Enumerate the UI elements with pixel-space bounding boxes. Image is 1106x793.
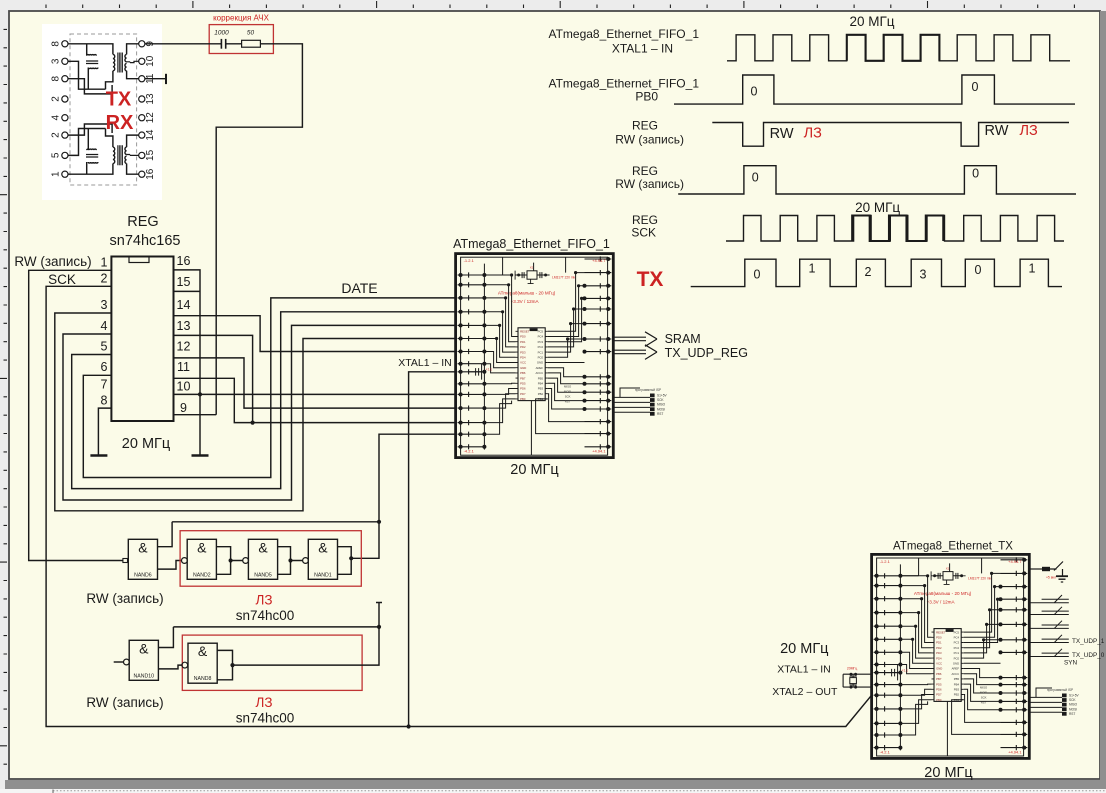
wire transformer pin9 to correction network to REG pin9 bbox=[145, 44, 303, 415]
svg-text:15: 15 bbox=[145, 149, 156, 161]
svg-text:REG: REG bbox=[127, 214, 158, 230]
wire REG pin8 to ground bbox=[98, 408, 111, 454]
svg-text:SYN: SYN bbox=[1064, 660, 1078, 667]
svg-text:ЛЗ: ЛЗ bbox=[255, 695, 272, 710]
svg-text:NAND10: NAND10 bbox=[134, 673, 155, 679]
svg-text:&: & bbox=[139, 640, 149, 656]
svg-text:PD6: PD6 bbox=[520, 387, 526, 391]
NAND gate NAND2 bbox=[182, 539, 243, 579]
svg-text:MISO: MISO bbox=[1069, 703, 1078, 707]
svg-text:PC2: PC2 bbox=[538, 345, 544, 349]
svg-text:PD0: PD0 bbox=[520, 335, 526, 339]
svg-text:ЛЗ: ЛЗ bbox=[255, 593, 272, 608]
svg-text:8: 8 bbox=[101, 394, 108, 408]
svg-text:ATmega8_Ethernet_TX: ATmega8_Ethernet_TX bbox=[893, 541, 1013, 553]
svg-text:PD6: PD6 bbox=[936, 688, 942, 692]
svg-text:14: 14 bbox=[145, 129, 156, 141]
ISP header TX bbox=[1029, 688, 1079, 716]
svg-text:SCK: SCK bbox=[565, 395, 571, 399]
svg-text:PB6: PB6 bbox=[936, 672, 942, 676]
transformer T1 ethernet magnetics bbox=[42, 24, 162, 200]
svg-text:TX_UDP_1: TX_UDP_1 bbox=[1072, 638, 1105, 645]
wire REG pin16 pin15 pin10 ground trunk bbox=[174, 270, 456, 455]
svg-text:PB7: PB7 bbox=[520, 376, 526, 380]
svg-text:0: 0 bbox=[751, 85, 758, 99]
svg-text:программный ISP: программный ISP bbox=[635, 388, 661, 392]
svg-text:AREF: AREF bbox=[952, 667, 960, 671]
svg-text:&: & bbox=[198, 643, 208, 659]
svg-text:0: 0 bbox=[972, 166, 979, 180]
svg-text:PC2: PC2 bbox=[954, 646, 960, 650]
transformer RX winding bbox=[68, 124, 139, 174]
svg-text:4: 4 bbox=[51, 114, 62, 120]
ground under REG pin8 bbox=[90, 454, 107, 456]
svg-text:PB4: PB4 bbox=[954, 682, 960, 686]
svg-text:+3.3V / 12mA: +3.3V / 12mA bbox=[511, 299, 540, 304]
svg-text:PD1: PD1 bbox=[936, 641, 942, 645]
svg-text:0: 0 bbox=[752, 171, 759, 185]
svg-text:SCK: SCK bbox=[48, 272, 76, 287]
svg-text:ATmega8_Ethernet_FIFO_1: ATmega8_Ethernet_FIFO_1 bbox=[548, 27, 699, 41]
label 20 MHz under FIFO bbox=[510, 462, 558, 478]
waveform row5 SCK clock bbox=[631, 200, 1064, 241]
svg-text:5: 5 bbox=[51, 152, 62, 158]
NAND gate NAND10 bbox=[114, 627, 182, 680]
wire NAND8 output long bbox=[233, 603, 383, 666]
svg-text:2: 2 bbox=[51, 132, 62, 138]
svg-text:TX: TX bbox=[106, 89, 132, 111]
svg-text:16: 16 bbox=[145, 168, 156, 180]
svg-text:LM317T 220 mk: LM317T 220 mk bbox=[968, 576, 991, 580]
label XTAL1-IN (FIFO) bbox=[398, 357, 452, 369]
svg-text:ЛЗ: ЛЗ bbox=[1019, 123, 1038, 139]
waveform row3 RW notch bbox=[615, 119, 1069, 147]
transformer TX winding bbox=[68, 44, 139, 94]
net arrow TX_UDP_REG bbox=[613, 345, 657, 360]
label XTAL1-OUT left of TX module bbox=[777, 664, 831, 676]
svg-text:REG: REG bbox=[632, 164, 658, 178]
svg-text:3: 3 bbox=[920, 268, 927, 282]
svg-text:RESET: RESET bbox=[520, 330, 530, 334]
svg-text:RX: RX bbox=[106, 112, 134, 134]
svg-text:REG: REG bbox=[632, 119, 658, 133]
svg-text:11: 11 bbox=[177, 360, 190, 374]
svg-text:15: 15 bbox=[177, 275, 191, 289]
svg-text:PC4: PC4 bbox=[538, 335, 544, 339]
label TX bbox=[106, 89, 132, 111]
svg-text:+5 вкл: +5 вкл bbox=[1046, 576, 1056, 580]
svg-text:RW: RW bbox=[985, 123, 1009, 139]
svg-text:MOSI: MOSI bbox=[1069, 707, 1077, 711]
module ATmega8_Ethernet_TX bbox=[872, 554, 1030, 758]
svg-text:3: 3 bbox=[51, 58, 62, 64]
label 20 MHz under TX module bbox=[924, 765, 972, 781]
svg-text:sn74hc00: sn74hc00 bbox=[236, 711, 295, 726]
svg-text:PC0: PC0 bbox=[538, 356, 544, 360]
svg-text:NAND5: NAND5 bbox=[254, 572, 272, 578]
svg-text:GND: GND bbox=[953, 662, 959, 666]
correction network box (koppekcia AChH) bbox=[209, 14, 273, 54]
svg-text:PD4: PD4 bbox=[520, 356, 526, 360]
svg-text:RW (запись): RW (запись) bbox=[14, 254, 91, 269]
svg-text:S1+5V: S1+5V bbox=[657, 394, 668, 398]
svg-text:10: 10 bbox=[145, 55, 156, 67]
svg-text:20 МГц: 20 МГц bbox=[849, 14, 894, 29]
wire FIFO XTAL trunk down to bottom bus bbox=[407, 372, 456, 729]
svg-text:+4.94.1: +4.94.1 bbox=[1008, 749, 1022, 754]
wire REG pin13 join bbox=[174, 335, 255, 424]
label sn74hc00 1 bbox=[236, 608, 295, 623]
label TX_UDP_1 bbox=[1072, 638, 1105, 645]
svg-text:1: 1 bbox=[1029, 262, 1036, 276]
label SCK bbox=[48, 272, 76, 287]
svg-text:RST: RST bbox=[1069, 712, 1075, 716]
net arrow SRAM bbox=[613, 332, 657, 347]
wire REG pin6 nested to FIFO bbox=[83, 298, 455, 478]
svg-text:sn74hc165: sn74hc165 bbox=[110, 233, 181, 249]
svg-text:&: & bbox=[197, 539, 207, 555]
waveform row4 RW pulses bbox=[615, 164, 1076, 194]
svg-text:XTAL1 – IN: XTAL1 – IN bbox=[612, 42, 673, 56]
svg-text:16: 16 bbox=[177, 254, 191, 268]
wire REG pin11 to FIFO bbox=[174, 378, 456, 422]
push button at TX module top right bbox=[1029, 562, 1069, 583]
label SRAM bbox=[665, 332, 701, 346]
label ATmega8_Ethernet_TX title bbox=[893, 541, 1013, 553]
waveform row2 PB0 bbox=[548, 75, 1075, 104]
svg-text:S1+5V: S1+5V bbox=[1069, 694, 1080, 698]
net arrows TX right side bbox=[1029, 595, 1069, 657]
wire REG pin3 nested to FIFO bbox=[55, 313, 456, 511]
svg-text:PB6: PB6 bbox=[520, 371, 526, 375]
svg-text:RW: RW bbox=[770, 126, 794, 142]
module ATmega8_Ethernet_FIFO_1 bbox=[456, 254, 614, 458]
svg-text:-4.2.1: -4.2.1 bbox=[880, 749, 891, 754]
label TX_UDP_REG bbox=[665, 346, 748, 360]
ISP header FIFO bbox=[613, 388, 667, 416]
svg-text:PB2: PB2 bbox=[538, 392, 544, 396]
svg-text:+4.94.1: +4.94.1 bbox=[592, 449, 606, 454]
svg-text:1: 1 bbox=[51, 171, 62, 177]
NAND gate NAND5 bbox=[243, 539, 303, 579]
svg-text:+1.1: +1.1 bbox=[902, 668, 909, 672]
svg-text:7: 7 bbox=[101, 378, 108, 392]
svg-text:-4.2.1: -4.2.1 bbox=[464, 449, 475, 454]
svg-text:XTAL1 – IN: XTAL1 – IN bbox=[777, 664, 831, 676]
svg-text:PB5: PB5 bbox=[954, 677, 960, 681]
wire REG pin9 stub bbox=[174, 414, 217, 416]
svg-text:20 МГц: 20 МГц bbox=[855, 200, 900, 215]
svg-text:PD3: PD3 bbox=[936, 651, 942, 655]
terminator stub on pin 11 bbox=[145, 74, 166, 84]
svg-text:RST: RST bbox=[981, 700, 987, 704]
wire NAND chain output up to FIFO bbox=[351, 434, 455, 558]
svg-text:PC1: PC1 bbox=[954, 651, 960, 655]
svg-text:12: 12 bbox=[177, 340, 191, 354]
wire NAND6 top loop bus bbox=[172, 521, 379, 523]
svg-text:+3.3V / 12mA: +3.3V / 12mA bbox=[927, 600, 956, 605]
svg-text:+4.94.7: +4.94.7 bbox=[1008, 559, 1022, 564]
svg-text:RESET: RESET bbox=[936, 630, 946, 634]
svg-text:PB3: PB3 bbox=[954, 688, 960, 692]
capacitor C1 1000 bbox=[221, 39, 225, 49]
svg-text:0: 0 bbox=[972, 80, 979, 94]
wire REG pin4 nested to FIFO bbox=[63, 325, 456, 500]
svg-text:2: 2 bbox=[865, 265, 872, 279]
svg-text:PD1: PD1 bbox=[520, 340, 526, 344]
svg-text:PB0: PB0 bbox=[936, 698, 942, 702]
svg-text:TX_UDP_0: TX_UDP_0 bbox=[1072, 652, 1105, 659]
svg-text:13: 13 bbox=[177, 319, 191, 333]
label LZ red 2 bbox=[255, 695, 272, 710]
svg-text:SCK: SCK bbox=[631, 226, 656, 240]
svg-text:PB0: PB0 bbox=[635, 90, 658, 104]
svg-text:0: 0 bbox=[754, 268, 761, 282]
svg-text:NAND2: NAND2 bbox=[193, 572, 211, 578]
svg-text:AVCC: AVCC bbox=[536, 371, 544, 375]
svg-text:NAND1: NAND1 bbox=[314, 572, 332, 578]
svg-text:SCK: SCK bbox=[1069, 698, 1076, 702]
svg-text:XTAL1 – IN: XTAL1 – IN bbox=[398, 357, 452, 369]
svg-text:MOSI: MOSI bbox=[657, 407, 665, 411]
svg-text:12: 12 bbox=[145, 112, 156, 124]
svg-text:PC1: PC1 bbox=[538, 350, 544, 354]
svg-text:&: & bbox=[138, 539, 148, 555]
waveform row6 TX data bbox=[637, 259, 1062, 291]
svg-text:6: 6 bbox=[101, 360, 108, 374]
svg-text:-1.2.1: -1.2.1 bbox=[464, 258, 475, 263]
label TX_UDP_0 bbox=[1072, 652, 1105, 659]
svg-text:MISO: MISO bbox=[657, 403, 666, 407]
svg-text:8: 8 bbox=[51, 75, 62, 81]
label ATmega8_Ethernet_FIFO_1 title bbox=[453, 237, 610, 251]
label RX bbox=[106, 112, 134, 134]
svg-text:PC4: PC4 bbox=[954, 636, 960, 640]
svg-text:TX: TX bbox=[637, 268, 664, 291]
wire NAND10 loop to trunk bbox=[173, 625, 381, 629]
wire REG pin14 to FIFO bbox=[174, 316, 456, 352]
svg-text:13: 13 bbox=[145, 93, 156, 105]
label SYN bbox=[1064, 660, 1078, 667]
resistor R1 50 bbox=[242, 40, 261, 47]
svg-text:PB4: PB4 bbox=[538, 382, 544, 386]
svg-text:AREF: AREF bbox=[536, 366, 544, 370]
ground under REG pin10 bbox=[192, 454, 209, 456]
svg-text:PB0: PB0 bbox=[520, 397, 526, 401]
svg-text:MOSI: MOSI bbox=[564, 390, 571, 394]
svg-text:ATmega8(малыш - 20 МГц): ATmega8(малыш - 20 МГц) bbox=[498, 290, 556, 295]
svg-text:14: 14 bbox=[177, 298, 191, 312]
wire REG pin12 to FIFO bbox=[174, 358, 456, 408]
label LZ red 1 bbox=[255, 593, 272, 608]
label sn74hc00 2 bbox=[236, 711, 295, 726]
crystal Q1 at TX module bbox=[843, 667, 872, 689]
svg-text:-1.2.1: -1.2.1 bbox=[880, 559, 891, 564]
label XTAL2-OUT left of TX module bbox=[772, 686, 838, 698]
svg-text:GND: GND bbox=[520, 366, 526, 370]
svg-text:DATE: DATE bbox=[341, 280, 377, 296]
svg-text:RST: RST bbox=[657, 412, 663, 416]
svg-text:PB7: PB7 bbox=[936, 677, 942, 681]
svg-text:0: 0 bbox=[975, 263, 982, 277]
svg-text:1: 1 bbox=[809, 262, 816, 276]
svg-text:коррекция АЧХ: коррекция АЧХ bbox=[213, 14, 270, 23]
svg-text:1000: 1000 bbox=[214, 30, 229, 37]
svg-text:4: 4 bbox=[101, 319, 108, 333]
svg-text:&: & bbox=[318, 539, 328, 555]
waveform row1 clock XTAL1 bbox=[548, 14, 1070, 61]
svg-text:PD3: PD3 bbox=[520, 350, 526, 354]
wire REG pin1 RW to NAND6 input bbox=[29, 270, 123, 560]
label RW zapis for NAND10 bbox=[86, 695, 163, 710]
svg-text:программный ISP: программный ISP bbox=[1047, 688, 1073, 692]
svg-text:PD5: PD5 bbox=[520, 382, 526, 386]
svg-text:+1.1: +1.1 bbox=[486, 368, 493, 372]
svg-text:PC5: PC5 bbox=[954, 630, 960, 634]
svg-text:3: 3 bbox=[101, 298, 108, 312]
svg-text:PD5: PD5 bbox=[936, 682, 942, 686]
svg-text:sn74hc00: sn74hc00 bbox=[236, 608, 295, 623]
svg-text:RW (запись): RW (запись) bbox=[615, 177, 684, 191]
svg-text:NAND8: NAND8 bbox=[194, 676, 212, 682]
wire REG pin5 nested to FIFO bbox=[72, 312, 456, 489]
svg-text:ATmega8_Ethernet_FIFO_1: ATmega8_Ethernet_FIFO_1 bbox=[548, 77, 699, 91]
svg-text:PD2: PD2 bbox=[520, 345, 526, 349]
svg-text:MISO: MISO bbox=[564, 385, 572, 389]
svg-text:RW (запись): RW (запись) bbox=[86, 695, 163, 710]
svg-text:1: 1 bbox=[101, 256, 108, 270]
label 20 MHz left of TX module bbox=[780, 641, 828, 657]
svg-text:20 МГц: 20 МГц bbox=[510, 462, 558, 478]
svg-text:20МГц: 20МГц bbox=[847, 667, 857, 671]
svg-text:SCK: SCK bbox=[657, 398, 664, 402]
svg-text:NAND6: NAND6 bbox=[134, 572, 152, 578]
svg-text:PD4: PD4 bbox=[936, 656, 942, 660]
svg-text:PD0: PD0 bbox=[936, 636, 942, 640]
svg-text:TX_UDP_REG: TX_UDP_REG bbox=[665, 346, 748, 360]
svg-text:&: & bbox=[258, 539, 268, 555]
svg-text:SCK: SCK bbox=[981, 695, 987, 699]
svg-text:PD2: PD2 bbox=[936, 646, 942, 650]
svg-text:ЛЗ: ЛЗ bbox=[804, 126, 823, 142]
svg-text:PC0: PC0 bbox=[954, 656, 960, 660]
svg-text:10: 10 bbox=[177, 380, 191, 394]
label RW zapis (REG pin1) bbox=[14, 254, 91, 269]
svg-text:VCC: VCC bbox=[936, 662, 942, 666]
svg-text:5: 5 bbox=[101, 340, 108, 354]
svg-text:2: 2 bbox=[51, 96, 62, 102]
wire REG pin2 SCK bottom bus to TX module XTAL bbox=[46, 286, 872, 726]
svg-text:20 МГц: 20 МГц bbox=[780, 641, 828, 657]
svg-text:LM317T 220 mk: LM317T 220 mk bbox=[552, 276, 575, 280]
svg-text:XTAL2 – OUT: XTAL2 – OUT bbox=[772, 686, 838, 698]
svg-text:SRAM: SRAM bbox=[665, 332, 701, 346]
svg-text:2: 2 bbox=[101, 272, 108, 286]
red delay-line box 1 bbox=[180, 531, 361, 587]
NAND gate NAND6 bbox=[123, 522, 182, 580]
svg-text:PB5: PB5 bbox=[538, 376, 544, 380]
svg-text:9: 9 bbox=[180, 401, 187, 415]
svg-text:RW (запись): RW (запись) bbox=[86, 591, 163, 606]
red delay-line box 2 bbox=[182, 635, 362, 690]
IC REG sn74hc165 bbox=[101, 214, 191, 452]
svg-text:ATmega8_Ethernet_FIFO_1: ATmega8_Ethernet_FIFO_1 bbox=[453, 237, 610, 251]
svg-text:8: 8 bbox=[51, 41, 62, 47]
svg-text:PC3: PC3 bbox=[538, 340, 544, 344]
NAND gate NAND8 bbox=[182, 643, 235, 683]
svg-text:VCC: VCC bbox=[520, 361, 526, 365]
svg-text:GND: GND bbox=[936, 667, 942, 671]
svg-text:AVCC: AVCC bbox=[952, 672, 960, 676]
svg-text:PD7: PD7 bbox=[520, 392, 526, 396]
svg-text:PD7: PD7 bbox=[936, 693, 942, 697]
svg-text:PB2: PB2 bbox=[954, 693, 960, 697]
svg-text:MOSI: MOSI bbox=[980, 690, 987, 694]
svg-text:GND: GND bbox=[537, 361, 543, 365]
svg-text:20 МГц: 20 МГц bbox=[924, 765, 972, 781]
svg-text:20 МГц: 20 МГц bbox=[122, 436, 170, 452]
svg-text:RW (запись): RW (запись) bbox=[615, 133, 684, 147]
svg-text:MISO: MISO bbox=[980, 685, 988, 689]
svg-text:RST: RST bbox=[565, 400, 571, 404]
svg-text:+4.94.7: +4.94.7 bbox=[592, 258, 606, 263]
svg-text:PB3: PB3 bbox=[538, 387, 544, 391]
svg-text:ATmega8(малыш - 20 МГц): ATmega8(малыш - 20 МГц) bbox=[914, 591, 972, 596]
label DATE bbox=[341, 280, 377, 296]
svg-text:PC5: PC5 bbox=[538, 330, 544, 334]
label RW zapis for NAND6 bbox=[86, 591, 163, 606]
NAND gate NAND1 bbox=[303, 539, 354, 579]
svg-text:50: 50 bbox=[247, 30, 255, 37]
svg-text:PC3: PC3 bbox=[954, 641, 960, 645]
